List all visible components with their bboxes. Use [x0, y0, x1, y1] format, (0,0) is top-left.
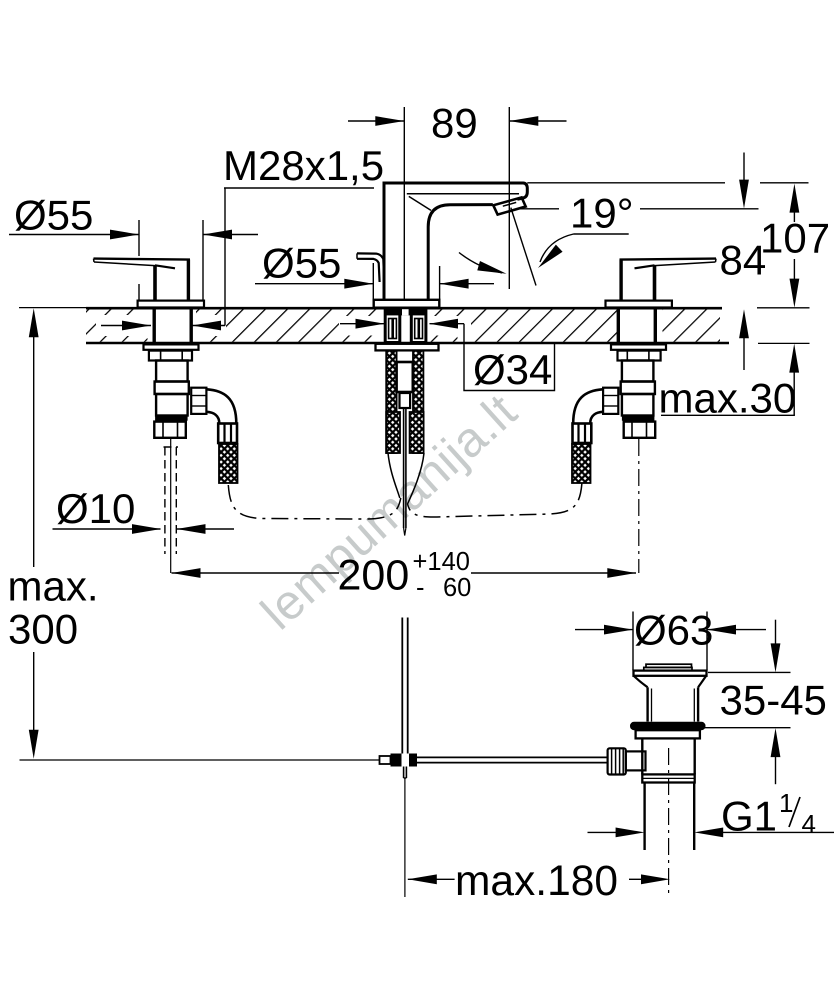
- lever blade: [94, 259, 191, 260]
- dim max.300 line: [33, 335, 35, 567]
- right valve assembly (mirror of left about x=404.75): [572, 259, 716, 483]
- knurled adjuster knob: [608, 748, 626, 774]
- aerator: [493, 197, 525, 214]
- o-ring dark band: [155, 416, 188, 421]
- max.30: [789, 344, 799, 373]
- valve body upper: [156, 361, 188, 382]
- dim 35-45 line: [775, 620, 777, 645]
- upper body: [646, 687, 648, 721]
- tailpipe G1 1/4: [643, 783, 645, 851]
- left shank M28: [122, 321, 151, 331]
- dim 84 line: [743, 153, 745, 182]
- rod clamp: [380, 756, 391, 764]
- handle body right edge: [187, 260, 190, 301]
- faucet top extension line: [527, 182, 725, 184]
- body outline: left edge + top + right corner: [384, 183, 527, 300]
- dim 107 line: [793, 212, 795, 222]
- cap: [646, 664, 692, 667]
- svg-text:300: 300: [8, 606, 78, 653]
- centre shank Ø34: [356, 319, 385, 329]
- left valve centre line down to 200-dim: [170, 438, 172, 573]
- mounting hex nut: [149, 351, 192, 361]
- max.300: [29, 308, 39, 337]
- Ø10 dashed rod hole (below left valve): [164, 447, 179, 554]
- pop-up waste assembly: [608, 664, 707, 897]
- pop-up rod guide: [397, 362, 413, 392]
- dim 89 extension lines: [403, 107, 405, 299]
- side outlet hex: [191, 388, 206, 414]
- 107: [790, 184, 800, 213]
- knob connector: [626, 751, 646, 770]
- 19deg arcs: [477, 261, 508, 278]
- Ø55 centre: [344, 279, 373, 289]
- svg-text:60: 60: [443, 574, 471, 602]
- 35-45: [771, 643, 781, 672]
- Ø63: [604, 625, 633, 635]
- max.180: [408, 874, 437, 884]
- centre mounting bolts through worktop: [385, 309, 426, 342]
- dim 89 line: [348, 120, 404, 122]
- worktop hatch: [86, 309, 720, 342]
- svg-text:max.: max.: [8, 563, 99, 610]
- Ø34 leader box: [464, 324, 555, 391]
- centre braided hoses: [386, 351, 396, 453]
- elbow tube: [207, 389, 237, 423]
- 84: [739, 180, 749, 209]
- white pockets for dimension arrows in hatch: [96, 315, 226, 336]
- svg-text:Ø55: Ø55: [262, 240, 341, 287]
- taper neck: [634, 676, 648, 688]
- spout outlet / 19deg reference lines: [517, 208, 559, 210]
- svg-text:max.30: max.30: [659, 375, 797, 422]
- 200: [172, 568, 201, 578]
- dim Ø63 extension lines: [632, 612, 634, 671]
- waste centre line: [668, 748, 670, 897]
- 19deg underline and arcs: [574, 233, 629, 235]
- flange under worktop: [144, 344, 199, 349]
- 19deg slanted stream line: [511, 208, 536, 286]
- svg-text:200: 200: [338, 552, 410, 600]
- left valve assembly (handle + below-counter valve), mirrored for right: [94, 259, 238, 483]
- G1 1/4: [616, 828, 645, 838]
- svg-text:Ø10: Ø10: [56, 485, 135, 532]
- dim max.30 leader: [793, 370, 795, 415]
- svg-text:+140: +140: [413, 548, 470, 576]
- lower body: [641, 738, 643, 774]
- svg-text:max.180: max.180: [455, 858, 618, 905]
- worktop bottom line: [86, 342, 810, 345]
- spout arm underside thin line: [407, 193, 519, 195]
- inner spout profile: [428, 205, 493, 300]
- pull rod knob: [357, 253, 384, 282]
- hose routing centre lines (dash-dot): [228, 484, 582, 520]
- horizontal pull rod: [417, 757, 608, 762]
- centre flange under worktop: [376, 344, 439, 351]
- dim 35-45 extension lines: [708, 671, 791, 673]
- base plate: [374, 300, 440, 308]
- dim 200 line: [172, 572, 340, 574]
- right valve centre line (dash-dot) down to 200-dim: [638, 439, 640, 573]
- o-ring: [630, 722, 706, 730]
- corner shading diagonal: [409, 196, 431, 210]
- svg-text:-: -: [416, 574, 425, 602]
- bottom rim: [642, 774, 694, 782]
- 89: [375, 116, 404, 126]
- shank walls through worktop: [152, 308, 155, 344]
- lower flange: [636, 730, 700, 738]
- horizontal datum line: [20, 759, 380, 761]
- valve body ring: [155, 382, 189, 395]
- svg-text:Ø55: Ø55: [14, 192, 93, 239]
- worktop top line: [19, 307, 810, 310]
- svg-text:4: 4: [802, 809, 816, 839]
- lower nut: [154, 422, 186, 438]
- dim G1 1/4 line: [588, 831, 617, 833]
- svg-text:89: 89: [431, 100, 478, 147]
- M28x1,5 leader: [224, 187, 374, 189]
- dim Ø55 centre line: [255, 283, 373, 285]
- centre shank Ø34 arrows tails: [340, 323, 384, 325]
- braided hose: [219, 444, 238, 483]
- dim Ø55 left line: [9, 234, 139, 236]
- svg-text:19°: 19°: [570, 190, 634, 237]
- svg-text:107: 107: [760, 215, 830, 262]
- svg-text:Ø63: Ø63: [634, 607, 713, 654]
- svg-text:1: 1: [779, 788, 793, 818]
- arrowheads: [29, 116, 800, 884]
- top flange: [634, 671, 707, 676]
- escutcheon: [138, 301, 204, 308]
- Ø10: [132, 524, 161, 534]
- dim Ø63 line: [575, 629, 633, 631]
- centre faucet body: [357, 183, 527, 308]
- hose end curves centre: [388, 453, 424, 504]
- pop-up rod (upper view): [404, 408, 406, 536]
- svg-text:M28x1,5: M28x1,5: [223, 142, 384, 189]
- dim max.180 line: [408, 878, 455, 880]
- dim Ø10 line: [53, 528, 161, 530]
- valve body lower: [156, 394, 188, 416]
- hose connector: [218, 424, 237, 444]
- svg-text:Ø34: Ø34: [473, 346, 552, 393]
- svg-text:35-45: 35-45: [720, 677, 827, 724]
- vertical pull rod (bottom view): [402, 618, 407, 898]
- pop-up rod connector: [400, 393, 411, 408]
- handle stem: [153, 266, 157, 301]
- dim Ø55 centre extension lines: [372, 263, 374, 299]
- Ø55 left: [110, 230, 139, 240]
- dim Ø55 left extension lines: [138, 220, 140, 256]
- svg-text:G1: G1: [721, 793, 777, 840]
